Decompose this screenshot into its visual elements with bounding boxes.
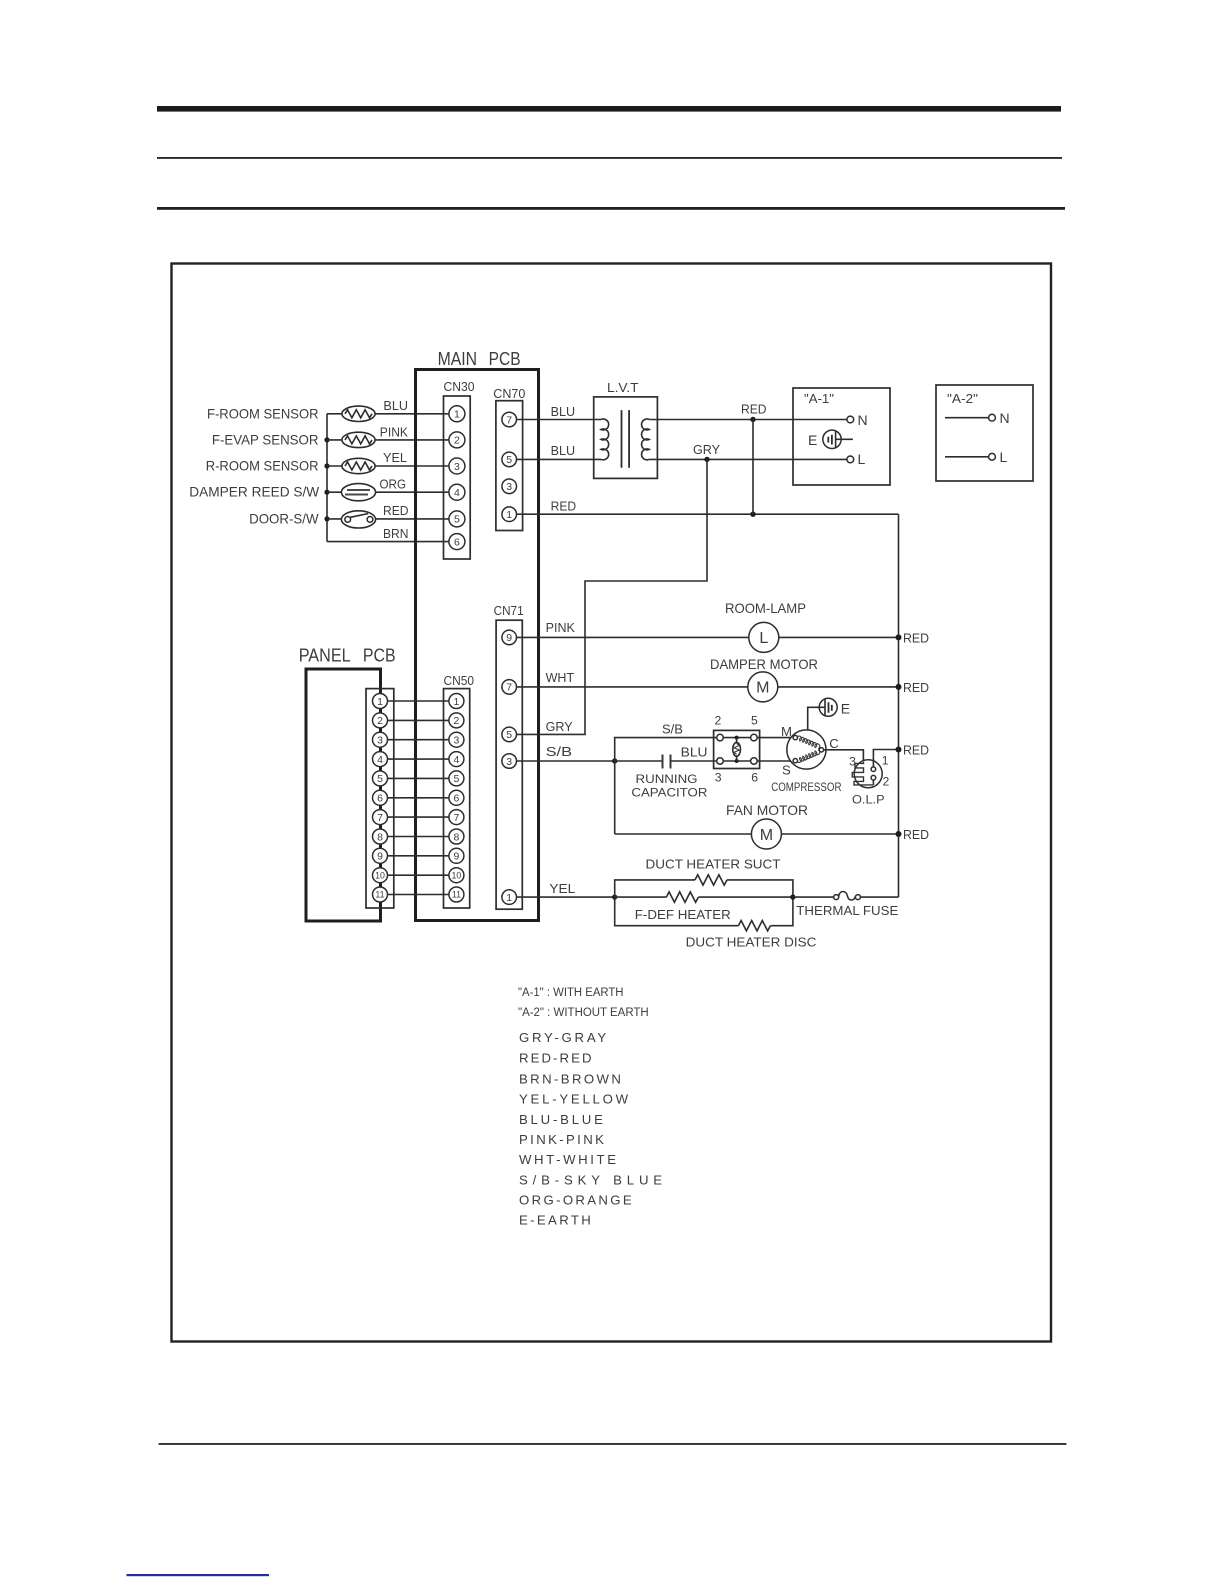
wire fan motor to bus bbox=[781, 833, 898, 835]
connector PANEL body bbox=[366, 689, 394, 908]
svg-text:"A-2": "A-2" bbox=[947, 391, 978, 406]
svg-text:5: 5 bbox=[454, 514, 460, 526]
earth symbol compressor bbox=[819, 698, 837, 716]
svg-text:5: 5 bbox=[506, 729, 512, 741]
CN30 pin 2 bbox=[449, 432, 465, 448]
svg-text:7: 7 bbox=[453, 812, 459, 824]
wire GRY routing to CN71-5 bbox=[517, 459, 708, 734]
PANEL pin 9 bbox=[373, 848, 388, 863]
plug box A-2 bbox=[936, 385, 1033, 481]
svg-text:3: 3 bbox=[506, 756, 512, 768]
relay PTC element bbox=[735, 736, 739, 740]
header thin rule bbox=[157, 157, 1062, 159]
node GRY junction on L wire bbox=[704, 457, 709, 462]
svg-text:6: 6 bbox=[454, 536, 460, 548]
resistor duct heater disc bbox=[738, 921, 770, 931]
wire row4 stubs bbox=[327, 491, 449, 493]
lamp L room lamp bbox=[749, 622, 779, 652]
svg-text:S/B-SKY BLUE: S/B-SKY BLUE bbox=[519, 1173, 662, 1188]
connector CN70 body bbox=[496, 401, 523, 531]
PANEL pin 1 bbox=[373, 694, 388, 709]
svg-text:6: 6 bbox=[751, 770, 758, 784]
svg-text:8: 8 bbox=[377, 831, 383, 843]
svg-text:COMPRESSOR: COMPRESSOR bbox=[771, 780, 841, 794]
svg-text:YEL: YEL bbox=[383, 450, 407, 465]
svg-text:DAMPER REED S/W: DAMPER REED S/W bbox=[189, 484, 320, 500]
svg-text:1: 1 bbox=[454, 409, 460, 421]
CN70 pin 1 bbox=[502, 507, 517, 522]
svg-text:O.L.P: O.L.P bbox=[852, 792, 885, 806]
svg-text:5: 5 bbox=[506, 454, 512, 466]
svg-text:RED: RED bbox=[903, 827, 929, 842]
PANEL pin 11 bbox=[373, 887, 388, 902]
svg-text:L: L bbox=[858, 451, 866, 467]
connector CN50 body bbox=[444, 689, 470, 908]
footer blue mark bbox=[127, 1574, 270, 1576]
node bus lamp junction bbox=[896, 634, 902, 640]
svg-text:"A-1" : WITH EARTH: "A-1" : WITH EARTH bbox=[518, 985, 624, 999]
svg-text:8: 8 bbox=[453, 831, 459, 843]
svg-text:9: 9 bbox=[506, 632, 512, 644]
svg-text:DOOR-S/W: DOOR-S/W bbox=[249, 510, 319, 526]
node bus fan junction bbox=[896, 831, 902, 837]
node bus OLP junction bbox=[896, 747, 902, 753]
PANEL pin 2 bbox=[373, 713, 388, 728]
wire S/B junction down to fan motor row bbox=[614, 761, 616, 834]
relay pin 3 bbox=[717, 758, 724, 765]
svg-text:E: E bbox=[841, 700, 850, 716]
heater branch top rail bbox=[615, 880, 695, 897]
svg-text:3: 3 bbox=[454, 461, 460, 473]
wire PINK CN71-9 to lamp bbox=[517, 636, 749, 638]
MAIN PCB outline bbox=[416, 370, 539, 921]
svg-text:M: M bbox=[781, 724, 792, 739]
heater branch middle bbox=[615, 896, 667, 898]
OLP heater element bbox=[852, 762, 873, 785]
svg-text:1: 1 bbox=[882, 754, 889, 768]
CN30 pin 4 bbox=[449, 484, 465, 500]
svg-text:L: L bbox=[759, 630, 768, 647]
svg-text:L: L bbox=[1000, 449, 1008, 465]
svg-text:DAMPER MOTOR: DAMPER MOTOR bbox=[710, 656, 818, 672]
compressor terminal C bbox=[819, 748, 823, 752]
svg-text:5: 5 bbox=[751, 714, 758, 728]
wire heater to thermal fuse bbox=[793, 896, 834, 898]
wire vertical N-to-RED link bbox=[752, 420, 754, 515]
svg-text:S/B: S/B bbox=[546, 744, 573, 759]
svg-text:CN30: CN30 bbox=[444, 379, 475, 394]
OLP contacts bbox=[872, 780, 874, 785]
svg-text:WHT: WHT bbox=[546, 670, 575, 685]
compressor terminal M bbox=[793, 735, 797, 739]
svg-text:R-ROOM SENSOR: R-ROOM SENSOR bbox=[206, 458, 319, 474]
CN50 pin 6 bbox=[449, 790, 464, 805]
wire thermal fuse to bus bbox=[860, 896, 898, 898]
svg-text:"A-1": "A-1" bbox=[804, 391, 834, 406]
node heater left junction bbox=[612, 894, 617, 899]
svg-text:PANELPCB: PANELPCB bbox=[299, 646, 396, 666]
relay internal wires bbox=[723, 738, 750, 761]
svg-text:4: 4 bbox=[454, 487, 460, 499]
CN70 pin 5 bbox=[502, 452, 517, 467]
PANEL pin 3 bbox=[373, 732, 388, 747]
node RED junction on N wire bbox=[750, 417, 755, 422]
svg-text:BLU-BLUE: BLU-BLUE bbox=[519, 1112, 603, 1127]
compressor start winding bbox=[797, 750, 820, 763]
wire YEL CN71-1 to heater node bbox=[517, 896, 615, 898]
panel-to-CN50 ribbon wires bbox=[380, 701, 456, 895]
svg-text:11: 11 bbox=[452, 890, 461, 900]
svg-text:4: 4 bbox=[453, 754, 459, 766]
svg-text:DUCT HEATER SUCT: DUCT HEATER SUCT bbox=[646, 857, 781, 872]
svg-text:2: 2 bbox=[883, 775, 890, 789]
svg-text:YEL-YELLOW: YEL-YELLOW bbox=[519, 1092, 629, 1107]
svg-text:RED: RED bbox=[383, 503, 409, 518]
svg-text:9: 9 bbox=[453, 851, 459, 863]
CN50 pin 9 bbox=[449, 848, 464, 863]
CN30 pin 3 bbox=[449, 458, 465, 474]
svg-text:S/B: S/B bbox=[662, 721, 683, 736]
svg-text:M: M bbox=[760, 827, 773, 844]
svg-text:1: 1 bbox=[453, 696, 459, 708]
wire OLP pin1 to bus bbox=[873, 750, 898, 768]
CN30 pin 6 bbox=[449, 534, 465, 550]
terminal L A-1 bbox=[847, 456, 854, 463]
CN71 pin 5 bbox=[502, 727, 517, 742]
PANEL pin 7 bbox=[373, 810, 388, 825]
connector CN30 body bbox=[444, 396, 471, 559]
wire compressor earth bbox=[808, 707, 825, 730]
PANEL pin 8 bbox=[373, 829, 388, 844]
top heavy rule bbox=[157, 106, 1061, 112]
svg-text:PINK: PINK bbox=[546, 620, 575, 635]
compressor terminal S bbox=[793, 759, 797, 763]
svg-text:3: 3 bbox=[506, 481, 512, 493]
wire S/B branch to relay pin2 bbox=[615, 738, 717, 761]
wire row1 stubs bbox=[327, 413, 449, 415]
svg-text:BLU: BLU bbox=[551, 404, 576, 419]
svg-text:BLU: BLU bbox=[383, 398, 408, 413]
svg-text:RED: RED bbox=[741, 402, 767, 417]
node F-EVAP junction bbox=[324, 437, 329, 442]
svg-text:F-EVAP SENSOR: F-EVAP SENSOR bbox=[212, 431, 319, 447]
sensor common bus wire bbox=[326, 414, 328, 542]
transformer primary winding bbox=[601, 419, 609, 460]
wire relay pin6 to compressor S bbox=[757, 760, 793, 762]
svg-text:GRY: GRY bbox=[693, 442, 720, 457]
svg-text:6: 6 bbox=[453, 793, 459, 805]
svg-text:L.V.T: L.V.T bbox=[607, 380, 639, 395]
thermistor R-ROOM sensor bbox=[342, 458, 375, 473]
svg-text:BRN: BRN bbox=[383, 526, 409, 541]
svg-text:YEL: YEL bbox=[549, 881, 575, 896]
compressor body bbox=[787, 730, 826, 769]
svg-text:CN70: CN70 bbox=[493, 386, 525, 401]
CN50 pin 10 bbox=[449, 868, 464, 883]
relay pin 6 bbox=[751, 758, 758, 765]
resistor duct heater suct bbox=[695, 875, 727, 885]
wire BLU CN70-5 to LVT primary bottom bbox=[517, 458, 602, 460]
svg-text:2: 2 bbox=[454, 435, 460, 447]
resistor F-DEF heater bbox=[666, 892, 698, 902]
CN50 pin 8 bbox=[449, 829, 464, 844]
svg-text:CAPACITOR: CAPACITOR bbox=[631, 786, 707, 800]
svg-text:7: 7 bbox=[506, 682, 512, 694]
wire row3 stubs bbox=[327, 465, 449, 467]
capacitor running capacitor bbox=[663, 755, 671, 769]
CN50 pin 11 bbox=[449, 887, 464, 902]
heater branch bottom rail bbox=[615, 897, 739, 926]
CN71 pin 7 bbox=[502, 680, 517, 695]
svg-text:5: 5 bbox=[377, 773, 383, 785]
svg-text:2: 2 bbox=[377, 715, 383, 727]
CN50 pin 5 bbox=[449, 771, 464, 786]
PANEL pin 10 bbox=[373, 868, 388, 883]
svg-text:11: 11 bbox=[375, 890, 384, 900]
wire lamp to bus bbox=[779, 636, 899, 638]
relay pin 5 bbox=[751, 734, 758, 741]
PANEL pin 4 bbox=[373, 752, 388, 767]
wire capacitor to relay pin3 bbox=[672, 760, 717, 762]
wire BLU CN70-7 to LVT primary top bbox=[517, 419, 602, 421]
svg-text:GRY: GRY bbox=[546, 719, 573, 734]
transformer secondary winding bbox=[642, 419, 650, 460]
wire L A-2 bbox=[945, 456, 989, 458]
wire row2 stubs bbox=[327, 439, 449, 441]
svg-text:"A-2" : WITHOUT EARTH: "A-2" : WITHOUT EARTH bbox=[518, 1005, 649, 1019]
CN50 pin 4 bbox=[449, 752, 464, 767]
CN30 pin 1 bbox=[449, 406, 465, 422]
svg-text:ORG: ORG bbox=[380, 477, 407, 492]
svg-text:7: 7 bbox=[377, 812, 383, 824]
svg-text:M: M bbox=[756, 680, 769, 697]
CN50 pin 2 bbox=[449, 713, 464, 728]
svg-text:ORG-ORANGE: ORG-ORANGE bbox=[519, 1193, 632, 1208]
svg-text:CN71: CN71 bbox=[494, 603, 524, 618]
wire S/B CN71-3 to junction bbox=[517, 760, 615, 762]
svg-text:S: S bbox=[782, 763, 791, 778]
svg-text:9: 9 bbox=[377, 851, 383, 863]
footer thin rule bbox=[159, 1443, 1067, 1445]
svg-text:N: N bbox=[858, 412, 868, 428]
compressor main winding bbox=[797, 736, 820, 749]
terminal L A-2 bbox=[989, 453, 996, 460]
svg-text:5: 5 bbox=[453, 773, 459, 785]
CN71 pin 9 bbox=[502, 630, 517, 645]
wire relay pin5 to compressor M bbox=[757, 737, 793, 739]
svg-text:RED: RED bbox=[903, 630, 929, 645]
CN71 pin 1 bbox=[502, 890, 517, 905]
svg-text:4: 4 bbox=[377, 754, 383, 766]
svg-text:1: 1 bbox=[506, 509, 512, 521]
node DOOR junction bbox=[324, 516, 329, 521]
svg-text:F-DEF HEATER: F-DEF HEATER bbox=[635, 907, 731, 922]
wire N A-2 bbox=[945, 417, 989, 419]
svg-text:E: E bbox=[808, 432, 817, 448]
door switch DOOR-S/W bbox=[341, 511, 375, 528]
CN70 pin 3 bbox=[502, 479, 517, 494]
CN30 pin 5 bbox=[449, 511, 465, 527]
svg-text:PINK-PINK: PINK-PINK bbox=[519, 1132, 604, 1147]
svg-text:DUCT HEATER DISC: DUCT HEATER DISC bbox=[686, 934, 817, 949]
svg-text:ROOM-LAMP: ROOM-LAMP bbox=[725, 600, 806, 616]
svg-text:RUNNING: RUNNING bbox=[636, 772, 698, 786]
svg-text:RED: RED bbox=[903, 743, 929, 758]
thermal fuse bbox=[834, 895, 839, 900]
plug box A-1 bbox=[793, 388, 890, 485]
svg-text:RED: RED bbox=[551, 499, 577, 514]
motor M fan motor bbox=[751, 819, 781, 849]
svg-text:FAN MOTOR: FAN MOTOR bbox=[726, 802, 808, 818]
svg-text:C: C bbox=[829, 736, 839, 751]
svg-text:PINK: PINK bbox=[380, 424, 408, 439]
reed switch DAMPER REED S/W bbox=[341, 484, 375, 501]
connector CN71 body bbox=[496, 620, 522, 909]
relay pin 2 bbox=[717, 734, 724, 741]
wire junction to capacitor bbox=[615, 760, 662, 762]
wire L from LVT secondary to A-1 bbox=[649, 458, 847, 460]
svg-text:THERMAL FUSE: THERMAL FUSE bbox=[796, 903, 898, 918]
wire RED right bus bbox=[898, 514, 900, 897]
svg-text:3: 3 bbox=[849, 755, 856, 769]
svg-text:2: 2 bbox=[715, 714, 722, 728]
node bus damper junction bbox=[896, 684, 902, 690]
CN50 pin 1 bbox=[449, 694, 464, 709]
header medium rule bbox=[157, 207, 1065, 210]
node junction RED drop bbox=[750, 512, 755, 517]
schematic border frame bbox=[172, 264, 1052, 1342]
wire N from LVT secondary to A-1 bbox=[649, 419, 847, 421]
svg-text:CN50: CN50 bbox=[444, 673, 475, 688]
CN50 pin 3 bbox=[449, 732, 464, 747]
svg-text:10: 10 bbox=[452, 870, 462, 880]
svg-text:10: 10 bbox=[375, 870, 385, 880]
wire RED CN70-1 to right bus bbox=[517, 513, 899, 515]
OLP body bbox=[854, 760, 882, 788]
wire row6 BRN bbox=[327, 541, 449, 543]
wire C to OLP pin3 bbox=[824, 750, 864, 762]
CN70 pin 7 bbox=[502, 412, 517, 427]
node S/B junction bbox=[612, 758, 617, 763]
node R-ROOM junction bbox=[324, 463, 329, 468]
transformer L.V.T box bbox=[594, 397, 658, 479]
svg-text:1: 1 bbox=[506, 892, 512, 904]
svg-text:2: 2 bbox=[453, 715, 459, 727]
PANEL pin 6 bbox=[373, 790, 388, 805]
transformer core bbox=[622, 410, 630, 468]
motor M damper motor bbox=[748, 672, 778, 702]
wire WHT CN71-7 to damper motor bbox=[517, 686, 748, 688]
svg-text:6: 6 bbox=[377, 793, 383, 805]
thermistor F-ROOM sensor bbox=[342, 406, 375, 421]
CN50 pin 7 bbox=[449, 810, 464, 825]
thermistor F-EVAP sensor bbox=[342, 432, 375, 447]
svg-text:7: 7 bbox=[506, 414, 512, 426]
svg-text:3: 3 bbox=[715, 770, 722, 784]
svg-text:RED: RED bbox=[903, 680, 929, 695]
relay start device box bbox=[714, 730, 760, 768]
svg-text:F-ROOM SENSOR: F-ROOM SENSOR bbox=[207, 405, 319, 421]
svg-text:3: 3 bbox=[377, 735, 383, 747]
CN71 pin 3 bbox=[502, 754, 517, 769]
svg-text:1: 1 bbox=[377, 696, 383, 708]
node DAMPER junction bbox=[324, 490, 329, 495]
svg-text:N: N bbox=[1000, 410, 1010, 426]
svg-text:GRY-GRAY: GRY-GRAY bbox=[519, 1030, 606, 1045]
svg-text:BLU: BLU bbox=[681, 745, 708, 760]
svg-text:3: 3 bbox=[453, 735, 459, 747]
svg-text:WHT-WHITE: WHT-WHITE bbox=[519, 1152, 616, 1167]
terminal N A-1 bbox=[847, 416, 854, 423]
wire fan motor row left bbox=[615, 833, 752, 835]
wire damper motor to bus bbox=[778, 686, 899, 688]
wire row5 stubs bbox=[327, 518, 449, 520]
PANEL PCB outline bbox=[306, 669, 381, 921]
terminal N A-2 bbox=[989, 414, 996, 421]
node heater right junction bbox=[790, 894, 795, 899]
PANEL pin 5 bbox=[373, 771, 388, 786]
svg-text:BLU: BLU bbox=[551, 443, 576, 458]
